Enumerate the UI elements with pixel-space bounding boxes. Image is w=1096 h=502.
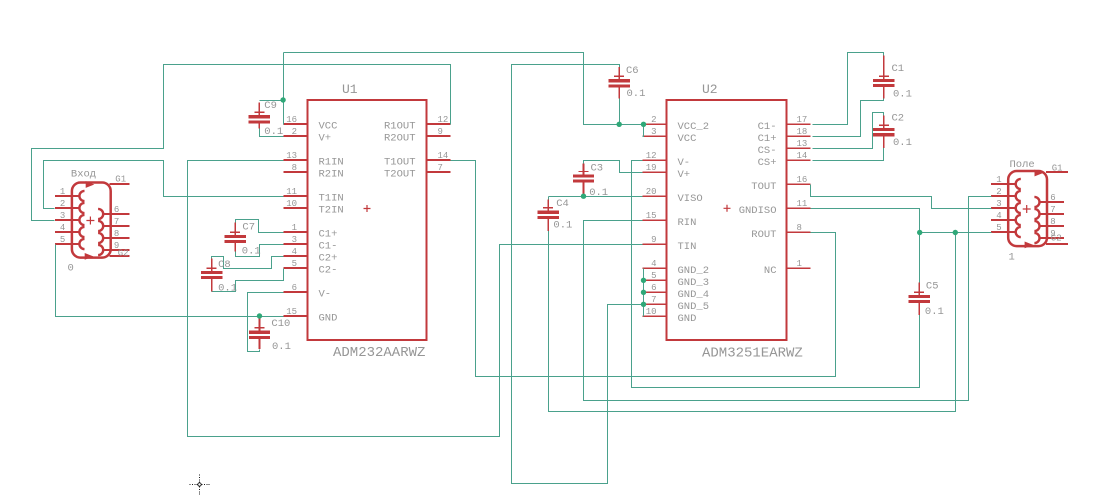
- wire TOUT to Поле pin3: [811, 185, 992, 209]
- svg-text:C2-: C2-: [319, 265, 338, 277]
- svg-text:GND: GND: [678, 313, 697, 325]
- svg-text:C3: C3: [591, 163, 604, 175]
- svg-text:5: 5: [996, 223, 1001, 233]
- svg-text:4: 4: [60, 223, 65, 233]
- wire C1- pin17 to C1 top: [813, 53, 884, 125]
- wire CS- pin13 to C2 top: [813, 113, 884, 149]
- pin Поле.7: [1040, 213, 1065, 215]
- pin U2.8 ROUT: [787, 231, 811, 233]
- svg-text:GNDISO: GNDISO: [739, 205, 777, 217]
- capacitor C5: [909, 281, 944, 319]
- svg-text:5: 5: [292, 259, 297, 269]
- svg-text:15: 15: [646, 211, 657, 221]
- capacitor C7: [224, 222, 260, 258]
- svg-text:15: 15: [286, 307, 297, 317]
- svg-text:T1OUT: T1OUT: [384, 157, 416, 169]
- wire V- U2 to C5 bottom: [632, 161, 920, 388]
- capacitor C4: [538, 198, 573, 232]
- pin U2.18 C1+: [787, 135, 811, 137]
- wire C4 top link: [548, 197, 550, 200]
- pin U1.4 C2+: [284, 255, 308, 257]
- svg-text:C4: C4: [556, 198, 569, 210]
- pin Вход.2: [55, 207, 80, 209]
- svg-text:4: 4: [996, 211, 1001, 221]
- svg-text:C7: C7: [242, 222, 255, 234]
- U2 origin cross: [724, 205, 731, 212]
- svg-text:10: 10: [286, 199, 297, 209]
- svg-text:7: 7: [1050, 205, 1055, 215]
- svg-text:ADM3251EARWZ: ADM3251EARWZ: [702, 346, 803, 362]
- pin U2.5 GND_3: [643, 279, 667, 281]
- svg-text:16: 16: [286, 115, 297, 125]
- wire ROUT to T1OUT: [451, 161, 836, 377]
- svg-text:7: 7: [114, 217, 119, 227]
- svg-text:3: 3: [996, 199, 1001, 209]
- svg-text:12: 12: [438, 115, 449, 125]
- pin Вход.1: [55, 195, 80, 197]
- svg-text:V+: V+: [319, 133, 332, 145]
- junction: [581, 194, 586, 199]
- wire VCC pin3 branch: [643, 125, 644, 137]
- pin U1.1 C1+: [284, 231, 308, 233]
- svg-text:9: 9: [651, 235, 656, 245]
- pin U2.20 VISO: [643, 195, 667, 197]
- svg-text:12: 12: [646, 151, 657, 161]
- svg-text:1: 1: [1009, 252, 1015, 264]
- pin Вход.G1: [110, 183, 130, 185]
- wire C10 bottom to V- U1: [248, 293, 284, 352]
- svg-text:7: 7: [651, 295, 656, 305]
- svg-text:0.1: 0.1: [264, 126, 283, 138]
- wire T1IN to Вход pin2: [44, 161, 284, 209]
- junction: [917, 230, 922, 235]
- svg-text:C1-: C1-: [758, 121, 777, 133]
- svg-text:R1OUT: R1OUT: [384, 121, 416, 133]
- pin U2.11 GNDISO: [787, 207, 811, 209]
- Вход origin cross: [86, 217, 94, 225]
- svg-text:C2+: C2+: [319, 253, 338, 265]
- svg-text:G1: G1: [1052, 163, 1063, 173]
- wire Вход pin5 to GND U1: [56, 245, 284, 317]
- svg-text:11: 11: [286, 187, 297, 197]
- svg-text:1: 1: [996, 175, 1001, 185]
- pin U1.5 C2-: [284, 267, 308, 269]
- wire C9 bottom to V+: [260, 129, 284, 137]
- wire C8 top to C2+: [212, 257, 284, 269]
- Вход contact 6: [98, 209, 103, 219]
- pin U2.10 GND: [643, 315, 667, 317]
- Вход contact 1: [79, 191, 84, 201]
- Поле contact 8: [1034, 221, 1039, 231]
- pin U1.3 C1-: [284, 243, 308, 245]
- svg-text:U2: U2: [702, 82, 718, 97]
- Поле origin cross: [1023, 205, 1031, 213]
- capacitor C3: [573, 163, 608, 199]
- Поле contact 1: [1016, 179, 1021, 189]
- Вход contact 7: [98, 221, 103, 231]
- svg-text:2: 2: [292, 127, 297, 137]
- svg-text:GND_4: GND_4: [678, 289, 710, 301]
- junction: [641, 122, 646, 127]
- svg-text:1: 1: [797, 259, 802, 269]
- svg-text:R1IN: R1IN: [319, 157, 344, 169]
- Вход contact 9: [98, 245, 103, 255]
- pin Поле.6: [1040, 201, 1065, 203]
- svg-text:C8: C8: [218, 259, 231, 271]
- Вход contact 4: [79, 227, 84, 237]
- svg-text:4: 4: [292, 247, 297, 257]
- junction: [641, 278, 646, 283]
- Поле contact 3: [1016, 203, 1021, 213]
- svg-text:C1-: C1-: [319, 241, 338, 253]
- svg-text:0.1: 0.1: [589, 187, 608, 199]
- svg-text:R2OUT: R2OUT: [384, 133, 416, 145]
- svg-text:C6: C6: [626, 65, 639, 77]
- pin Поле.8: [1040, 225, 1065, 227]
- junction: [641, 290, 646, 295]
- wire RIN to Поле pin2: [584, 197, 992, 401]
- pin U1.12 R1OUT: [427, 123, 451, 125]
- svg-text:T2IN: T2IN: [319, 205, 344, 217]
- svg-text:T2OUT: T2OUT: [384, 169, 416, 181]
- svg-text:13: 13: [797, 139, 808, 149]
- svg-text:10: 10: [646, 307, 657, 317]
- wire C7 bottom to C1-: [236, 245, 284, 257]
- svg-text:7: 7: [438, 163, 443, 173]
- svg-text:0.1: 0.1: [553, 220, 572, 232]
- svg-text:VCC: VCC: [678, 133, 697, 145]
- Вход contact 8: [98, 233, 103, 243]
- pin U1.2 V+: [284, 135, 308, 137]
- svg-text:8: 8: [797, 223, 802, 233]
- wire C3 top to V+ U2: [584, 161, 643, 173]
- pin U1.10 T2IN: [284, 207, 308, 209]
- pin U2.12 V-: [643, 159, 667, 161]
- pin U1.9 R2OUT: [427, 135, 451, 137]
- Вход contact 5: [79, 239, 84, 249]
- junction: [617, 122, 622, 127]
- wire GND comb U2: [643, 269, 645, 317]
- wire C7 top to C1+: [236, 220, 284, 233]
- pin U1.6 V-: [284, 291, 308, 293]
- svg-text:0.1: 0.1: [925, 306, 944, 318]
- svg-text:1: 1: [292, 223, 297, 233]
- pin U2.13 CS-: [787, 147, 811, 149]
- pin Поле.G1: [1046, 171, 1068, 173]
- svg-text:14: 14: [797, 151, 808, 161]
- svg-text:0.1: 0.1: [627, 88, 646, 100]
- svg-text:3: 3: [60, 211, 65, 221]
- connector Вход body: [72, 183, 111, 258]
- pin Поле.5: [991, 231, 1016, 233]
- pin Поле.2: [991, 195, 1016, 197]
- svg-text:CS-: CS-: [758, 145, 777, 157]
- pin Вход.7: [103, 225, 129, 227]
- svg-text:C5: C5: [926, 281, 939, 293]
- wire R1IN to TIN: [188, 161, 643, 437]
- capacitor C8: [201, 259, 237, 295]
- pin U2.19 V+: [643, 171, 667, 173]
- svg-text:C1+: C1+: [758, 133, 777, 145]
- junction: [257, 313, 262, 318]
- svg-text:9: 9: [438, 127, 443, 137]
- pin U1.15 GND: [284, 315, 308, 317]
- Поле contact 9: [1034, 233, 1039, 243]
- svg-text:GND_3: GND_3: [678, 277, 710, 289]
- svg-text:V-: V-: [319, 289, 332, 301]
- svg-text:16: 16: [797, 175, 808, 185]
- svg-text:C2: C2: [892, 113, 905, 125]
- svg-text:14: 14: [438, 151, 449, 161]
- pin U2.1 NC: [787, 267, 811, 269]
- svg-text:Вход: Вход: [71, 169, 96, 181]
- svg-text:6: 6: [114, 205, 119, 215]
- IC U1 ADM232AARWZ box: [308, 100, 427, 340]
- svg-text:0.1: 0.1: [242, 246, 261, 258]
- svg-text:4: 4: [651, 259, 656, 269]
- svg-text:ROUT: ROUT: [751, 229, 776, 241]
- svg-text:0.1: 0.1: [272, 341, 291, 353]
- pin U1.16 VCC: [284, 123, 308, 125]
- Поле bottom arrow: [1025, 242, 1034, 249]
- pin U2.16 TOUT: [787, 183, 811, 185]
- svg-text:8: 8: [114, 229, 119, 239]
- svg-text:5: 5: [60, 235, 65, 245]
- IC U2 ADM3251EARWZ box: [667, 100, 787, 340]
- wire R1OUT to Вход pin3: [32, 65, 451, 221]
- svg-text:G2: G2: [1051, 233, 1062, 243]
- wire C6 bottom: [619, 99, 621, 125]
- wire C4 bottom to GNDISO: [549, 231, 956, 412]
- svg-text:19: 19: [646, 163, 657, 173]
- Поле contact 4: [1016, 215, 1021, 225]
- svg-text:0.1: 0.1: [893, 137, 912, 149]
- svg-text:3: 3: [651, 127, 656, 137]
- svg-text:GND: GND: [319, 313, 338, 325]
- svg-text:G1: G1: [115, 175, 126, 185]
- wire C8 bottom to C2-: [212, 269, 284, 292]
- svg-text:8: 8: [1050, 217, 1055, 227]
- svg-text:2: 2: [651, 115, 656, 125]
- wire GND to C6 top: [512, 65, 644, 484]
- wire GNDISO to Поле pin5: [920, 232, 992, 234]
- wire C2 bottom to pin14: [813, 148, 884, 161]
- svg-text:0.1: 0.1: [893, 89, 912, 101]
- capacitor C9: [249, 100, 284, 138]
- Поле contact 2: [1016, 191, 1021, 201]
- capacitor C1: [873, 56, 912, 101]
- pin Вход.5: [55, 243, 80, 245]
- pin U2.15 RIN: [643, 219, 667, 221]
- svg-text:8: 8: [292, 163, 297, 173]
- svg-text:CS+: CS+: [758, 157, 777, 169]
- connector Поле body: [1008, 171, 1047, 246]
- svg-text:U1: U1: [342, 82, 358, 97]
- wire VCC U1-U2: [284, 53, 643, 125]
- Вход top arrow: [86, 181, 95, 188]
- pin Вход.G2: [110, 255, 130, 257]
- svg-text:TIN: TIN: [678, 241, 697, 253]
- pin U2.2 VCC_2: [643, 123, 667, 125]
- pin Поле.9: [1040, 237, 1065, 239]
- Поле top arrow: [1035, 170, 1044, 177]
- svg-text:18: 18: [797, 127, 808, 137]
- svg-text:C10: C10: [271, 318, 290, 330]
- pin Вход.4: [55, 231, 80, 233]
- svg-text:C1: C1: [892, 63, 905, 75]
- wire C1 bottom to pin18: [813, 99, 884, 137]
- svg-text:6: 6: [1050, 193, 1055, 203]
- pin U1.13 R1IN: [284, 159, 308, 161]
- pin U2.7 GND_5: [643, 303, 667, 305]
- svg-text:C9: C9: [264, 100, 277, 112]
- svg-text:V-: V-: [678, 157, 691, 169]
- Поле contact 7: [1034, 209, 1039, 219]
- svg-text:R2IN: R2IN: [319, 169, 344, 181]
- Поле contact 6: [1034, 197, 1039, 207]
- svg-text:1: 1: [60, 187, 65, 197]
- svg-text:T1IN: T1IN: [319, 193, 344, 205]
- pin Поле.1: [991, 183, 1016, 185]
- junction: [641, 302, 646, 307]
- pin U2.9 TIN: [643, 243, 667, 245]
- wire GNDISO to C5 top: [811, 209, 920, 284]
- cursor crosshair: [190, 475, 210, 495]
- junction: [953, 230, 958, 235]
- junction: [280, 97, 285, 102]
- svg-text:GND_2: GND_2: [678, 265, 710, 277]
- svg-text:C1+: C1+: [319, 229, 338, 241]
- pin U2.4 GND_2: [643, 267, 667, 269]
- pin Вход.8: [103, 237, 129, 239]
- pin U1.8 R2IN: [284, 171, 308, 173]
- pin Поле.3: [991, 207, 1016, 209]
- capacitor C2: [873, 113, 912, 150]
- pin U2.3 VCC: [643, 135, 667, 137]
- Вход contact 2: [79, 203, 84, 213]
- wire C3 bottom to VISO: [583, 194, 585, 197]
- pin Поле.4: [991, 219, 1016, 221]
- svg-text:ADM232AARWZ: ADM232AARWZ: [333, 345, 425, 361]
- svg-text:20: 20: [646, 187, 657, 197]
- svg-text:TOUT: TOUT: [751, 181, 776, 193]
- svg-text:6: 6: [651, 283, 656, 293]
- pin Поле.G2: [1046, 243, 1068, 245]
- pin Вход.6: [103, 213, 129, 215]
- svg-text:17: 17: [797, 115, 808, 125]
- capacitor C10: [249, 316, 291, 353]
- wire VCC vertical at C9: [283, 53, 285, 125]
- svg-text:13: 13: [286, 151, 297, 161]
- svg-text:V+: V+: [678, 169, 691, 181]
- Вход bottom arrow: [85, 253, 94, 260]
- svg-text:VISO: VISO: [678, 193, 703, 205]
- svg-text:VCC_2: VCC_2: [678, 121, 710, 133]
- pin U2.6 GND_4: [643, 291, 667, 293]
- svg-text:5: 5: [651, 271, 656, 281]
- svg-text:0: 0: [68, 263, 74, 275]
- U1 origin cross: [364, 205, 371, 212]
- pin U2.14 CS+: [787, 159, 811, 161]
- svg-text:VCC: VCC: [319, 121, 338, 133]
- svg-text:0.1: 0.1: [218, 283, 237, 295]
- pin U1.14 T1OUT: [427, 159, 451, 161]
- svg-text:3: 3: [292, 235, 297, 245]
- wire C9 top to junction: [260, 100, 284, 102]
- pin U1.11 T1IN: [284, 195, 308, 197]
- capacitor C6: [609, 65, 646, 100]
- wire VISO line: [549, 196, 643, 198]
- pin Вход.3: [55, 219, 80, 221]
- svg-text:NC: NC: [764, 265, 777, 277]
- svg-text:2: 2: [996, 187, 1001, 197]
- Поле contact 5: [1016, 227, 1021, 237]
- svg-text:Поле: Поле: [1010, 159, 1035, 171]
- svg-text:11: 11: [797, 199, 808, 209]
- Вход contact 3: [79, 215, 84, 225]
- pin Вход.9: [103, 249, 129, 251]
- svg-text:GND_5: GND_5: [678, 301, 710, 313]
- pin U2.17 C1-: [787, 123, 811, 125]
- svg-text:2: 2: [60, 199, 65, 209]
- svg-text:G2: G2: [118, 249, 129, 259]
- svg-text:RIN: RIN: [678, 217, 697, 229]
- pin U1.7 T2OUT: [427, 171, 451, 173]
- svg-text:6: 6: [292, 283, 297, 293]
